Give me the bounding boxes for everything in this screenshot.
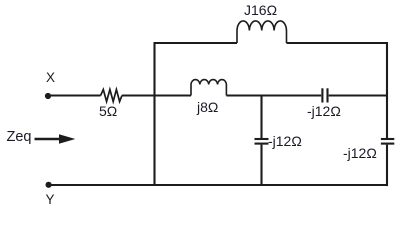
capacitor C1 -j12ohm horizontal plates bbox=[321, 88, 323, 102]
inductor L1 J16ohm bbox=[237, 21, 287, 43]
capacitor C2 -j12ohm middle plates bbox=[255, 138, 269, 140]
wire: middle vertical below C2 bbox=[260, 145, 262, 185]
wire: right vertical below C3 bbox=[386, 145, 388, 187]
wire: middle horizontal C1 to right vertical bbox=[329, 94, 387, 96]
label -j12 C1 bbox=[307, 104, 341, 118]
wire: bottom horizontal bbox=[49, 184, 388, 186]
inductor L2 j8ohm bbox=[191, 80, 226, 96]
label -j12 C3 bbox=[343, 146, 377, 160]
wire: top horizontal left segment bbox=[155, 43, 238, 96]
wire: top horizontal right segment bbox=[287, 43, 388, 138]
node Y label bbox=[46, 193, 55, 207]
terminal X dot bbox=[45, 93, 51, 99]
label 5 ohm bbox=[99, 104, 117, 118]
wire: middle horizontal resistor to j8 inductor bbox=[122, 94, 191, 96]
wire: middle vertical above C2 bbox=[260, 96, 262, 139]
wire: middle horizontal j8 to capacitor C1 bbox=[226, 94, 321, 96]
wire: left vertical below middle wire bbox=[153, 96, 155, 186]
label J16 bbox=[244, 3, 277, 17]
label j8 ohm bbox=[197, 100, 218, 114]
resistor R 5ohm bbox=[101, 90, 122, 102]
wire: middle horizontal left segment (X to resistor) bbox=[48, 94, 101, 96]
Zeq arrow bbox=[35, 134, 76, 143]
node X label bbox=[46, 71, 55, 85]
label -j12 C2 bbox=[268, 134, 302, 148]
capacitor C3 -j12ohm right plates bbox=[381, 138, 394, 140]
Zeq label bbox=[7, 130, 32, 144]
terminal Y dot bbox=[46, 182, 52, 188]
